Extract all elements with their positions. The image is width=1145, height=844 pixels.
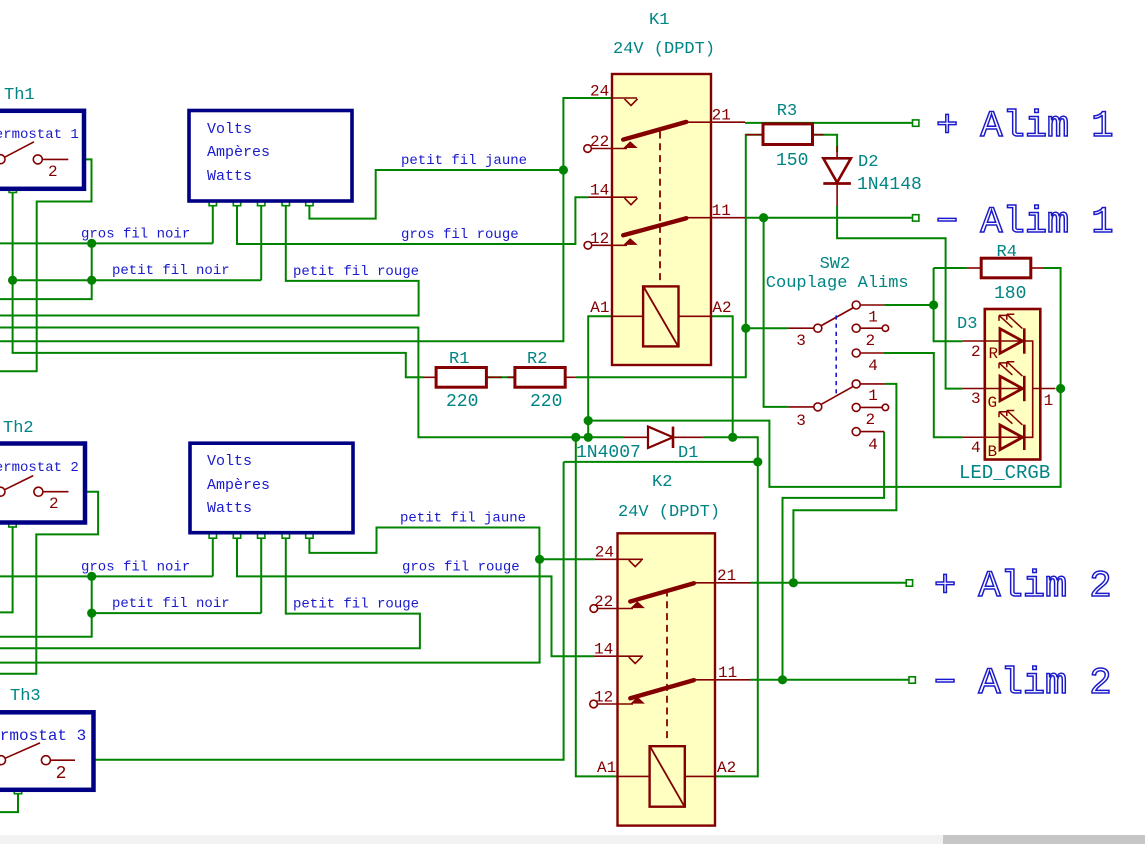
pin square VM1-1 [209, 198, 216, 205]
wire R1 left feed segment [486, 376, 515, 378]
SW2-A lever [822, 308, 853, 326]
coupling dash K2 [666, 590, 668, 743]
wire SW2-B pin4 down to -Alim2 [783, 432, 885, 680]
wire R4 left and D3 pin2 vertical [934, 268, 963, 341]
svg-text:Ampères: Ampères [207, 144, 270, 161]
svg-text:1N4007: 1N4007 [576, 443, 641, 463]
wire D1 out across and down [703, 437, 758, 776]
svg-text:1: 1 [868, 387, 878, 405]
svg-text:petit fil rouge: petit fil rouge [293, 597, 419, 613]
svg-text:petit fil jaune: petit fil jaune [400, 511, 526, 527]
svg-text:22: 22 [590, 133, 609, 151]
junction petit-noir2 x91.7 [87, 609, 96, 618]
svg-text:2: 2 [48, 163, 58, 181]
coil K2 [650, 746, 685, 807]
svg-text:− Alim 2: − Alim 2 [934, 663, 1112, 705]
wire R2 right to R3-left vertical [576, 135, 763, 378]
junction petit-noir1 x91.7 [87, 276, 96, 285]
svg-text:12: 12 [594, 689, 613, 707]
SW2-B pin1 [852, 380, 860, 388]
contact bar pole1 K2 [630, 583, 694, 601]
pin 11 K1 [687, 217, 745, 219]
svg-text:Th2: Th2 [3, 419, 34, 438]
wire petit fil noir 2 (VM2 pin3) [92, 612, 262, 614]
pin 22 K1 [584, 145, 592, 153]
wire VM2 pin3 stub [260, 538, 262, 613]
wire D2 bottom to D3 pin3 [837, 206, 962, 389]
junction petit-noir1 left [8, 276, 17, 285]
LED R triangle D3 [1000, 329, 1023, 354]
wire K1 A1 vertical to D1 anode and K2 pin24 area [588, 316, 612, 437]
pin square VM2-5 [306, 531, 313, 538]
endpoint square -Alim2 [909, 677, 915, 683]
wire D1-out branch left to Th3 switch net [564, 461, 758, 463]
wire K1 pin21 to +Alim1 [745, 122, 912, 124]
diode D2 1N4148 [823, 146, 922, 206]
D3 internal cathode bus [1024, 341, 1032, 437]
pin A1 K1 [612, 315, 643, 317]
wire petit fil rouge 2 (VM2 pin4 wrap to left) [0, 538, 420, 648]
svg-text:R: R [989, 345, 999, 363]
endpoint square +Alim1 [913, 120, 919, 126]
pin 14 K1 [589, 196, 638, 198]
relay K2 [590, 473, 751, 826]
pin square VM2-3 [258, 531, 265, 538]
junction D3 pin1 / R4 right [1056, 384, 1065, 393]
pin 21 K1 [687, 121, 745, 123]
pin 24 K2 [595, 558, 643, 560]
wire VM1 pin3 stub [260, 206, 262, 281]
pin square VM1-4 [282, 198, 289, 205]
SW2-B pin2 [852, 403, 860, 411]
pin square VM1-2 [233, 198, 240, 205]
svg-text:24: 24 [595, 544, 614, 562]
relay K1 [584, 11, 745, 365]
wire K1 pin24 net vertical with left branch [0, 98, 612, 341]
LED R emission arrows [999, 315, 1012, 327]
wire K2 pin24 branch down to left band [0, 559, 540, 662]
wire left band to D1 anode [0, 328, 623, 438]
svg-text:220: 220 [530, 392, 562, 412]
svg-text:2: 2 [49, 495, 59, 513]
svg-text:− Alim 1: − Alim 1 [936, 202, 1114, 244]
voltmeter VM2 [190, 443, 353, 533]
svg-text:Th1: Th1 [4, 86, 35, 105]
pin square Th1 [9, 185, 16, 192]
svg-text:Thermostat 3: Thermostat 3 [0, 727, 86, 745]
wire K2 pin11 to -Alim2 [751, 679, 909, 681]
wire SW2-A pin4 to D3 pin4 [883, 353, 962, 437]
svg-text:24: 24 [590, 83, 609, 101]
wire x91.7 vertical noir2 to left exit [0, 576, 92, 636]
junction gros-noir1 x91.7 [87, 239, 96, 248]
wire K2 pin21 to +Alim2 [751, 582, 906, 584]
svg-text:3: 3 [796, 412, 806, 430]
wire gros fil rouge (VM1 pin2 to K1 pin14) [237, 197, 589, 244]
svg-text:12: 12 [590, 230, 609, 248]
svg-text:G: G [988, 394, 998, 412]
svg-text:gros fil noir: gros fil noir [81, 227, 190, 243]
svg-text:Volts: Volts [207, 453, 252, 470]
LED R lead [962, 340, 1024, 342]
svg-text:4: 4 [971, 439, 981, 457]
junction gros-noir2 x91.7 [87, 572, 96, 581]
svg-text:gros fil rouge: gros fil rouge [401, 227, 519, 243]
wire Th2 switch path [0, 492, 98, 674]
resistor R4 [967, 243, 1043, 304]
thermostat Th3 [0, 687, 94, 790]
svg-text:D3: D3 [957, 315, 977, 334]
svg-text:150: 150 [776, 151, 808, 171]
svg-text:petit fil rouge: petit fil rouge [293, 264, 419, 280]
wire K1 A2 down to D1 out [711, 316, 733, 437]
pin square Th3 [14, 786, 21, 793]
LED B lead [962, 436, 1024, 438]
svg-text:1: 1 [1044, 392, 1054, 410]
pin 12 K2 [590, 700, 598, 708]
svg-text:11: 11 [718, 664, 737, 682]
svg-text:24V (DPDT): 24V (DPDT) [618, 503, 720, 522]
voltmeter VM1 [189, 111, 352, 202]
junction D1 anode dot1 [571, 433, 580, 442]
wire SW2-A pin3 to R3 net junction [747, 327, 789, 329]
junction -Alim2 [778, 675, 787, 684]
svg-text:1N4148: 1N4148 [857, 175, 922, 195]
switch SW2 couplage alims [766, 255, 909, 454]
wire SW2-A pin1 to R4 junction [884, 304, 933, 306]
svg-text:22: 22 [594, 593, 613, 611]
pin square VM1-5 [306, 198, 313, 205]
junction R3-left / SW2-A3 [741, 324, 750, 333]
pin square VM1-3 [258, 198, 265, 205]
svg-text:+ Alim 2: + Alim 2 [934, 566, 1112, 608]
svg-text:B: B [988, 443, 998, 461]
svg-text:2: 2 [56, 764, 67, 784]
svg-text:3: 3 [796, 332, 806, 350]
svg-text:petit fil noir: petit fil noir [112, 596, 230, 612]
svg-text:petit fil jaune: petit fil jaune [401, 153, 527, 169]
pin 14 K2 [594, 655, 643, 657]
wire petit fil noir (Th1 pin to VM1 pin3) [13, 279, 262, 281]
wire x91.7 vertical gros-noir to left exit [0, 243, 92, 299]
wire gros fil noir 2 (to VM2 pin1) [0, 575, 213, 577]
junction D1 out lower [753, 457, 762, 466]
svg-text:220: 220 [446, 392, 478, 412]
svg-text:1: 1 [868, 309, 878, 327]
pin square Th2 [9, 520, 16, 527]
svg-text:Th3: Th3 [10, 687, 41, 706]
resistor R3 [746, 102, 824, 171]
svg-text:4: 4 [868, 436, 878, 454]
svg-text:A1: A1 [590, 299, 609, 317]
junction D1 out / K1-A2 [728, 433, 737, 442]
contact bar pole2 K2 [630, 680, 694, 698]
wire petit fil jaune 2 (VM2 pin5 to K2 pin24 net) [309, 528, 594, 560]
svg-text:D1: D1 [678, 444, 698, 463]
D3 pin1 lead [1033, 388, 1056, 390]
wire VM2 pin1 stub [212, 538, 214, 576]
svg-text:21: 21 [717, 567, 736, 585]
wire gros fil rouge 2 (VM2 pin2 to K2 pin14) [237, 538, 594, 656]
svg-text:gros fil rouge: gros fil rouge [402, 560, 520, 576]
pin A2 K2 [685, 775, 715, 777]
wire petit fil rouge (VM1 pin4 wrap to left edge) [0, 206, 419, 316]
wire petit fil jaune (VM1 pin5 to K1 pin24 net) [309, 170, 563, 219]
svg-text:K2: K2 [652, 473, 672, 492]
svg-text:+ Alim 1: + Alim 1 [936, 106, 1114, 148]
SW2-A pin4 [852, 349, 860, 357]
coupling dash K1 [659, 132, 661, 282]
SW2 gang dashed link [835, 315, 837, 393]
svg-text:gros fil noir: gros fil noir [81, 560, 190, 576]
SW2-B pin3 [788, 406, 813, 408]
wire Th3 pin stub to left exit [0, 794, 18, 812]
svg-text:4: 4 [868, 357, 878, 375]
svg-text:Watts: Watts [207, 500, 252, 517]
svg-text:D2: D2 [858, 153, 878, 172]
pin 24 K1 [612, 97, 637, 99]
scrollbar track [0, 835, 1145, 844]
wire SW2-B pin1 down to +Alim2 [793, 384, 896, 583]
wire gros fil noir (net Th1/VM1 pin1) [0, 242, 213, 244]
svg-text:K1: K1 [649, 11, 669, 30]
svg-text:Ampères: Ampères [207, 477, 270, 494]
svg-text:2: 2 [971, 343, 981, 361]
svg-text:2: 2 [866, 411, 876, 429]
svg-text:LED_CRGB: LED_CRGB [959, 462, 1050, 484]
pin 12 K1 [584, 242, 592, 250]
wire Th2 pin stub down to left exit [0, 527, 13, 612]
LED B emission arrows [999, 412, 1012, 424]
junction -Alim1 / SW2-B3 [759, 213, 768, 222]
SW2-B lever [822, 387, 853, 405]
LED B triangle D3 [1000, 425, 1023, 450]
thermostat Th1 [0, 86, 84, 189]
LED G lead [962, 388, 1024, 390]
svg-text:Thermostat 2: Thermostat 2 [0, 460, 79, 476]
junction SW2-A1 / R4 [929, 300, 938, 309]
endpoint square +Alim2 [906, 580, 912, 586]
wire Th3 switch long run [75, 462, 564, 760]
wire Th1 switch to left exit [0, 159, 92, 371]
svg-text:2: 2 [866, 332, 876, 350]
svg-text:Thermostat 1: Thermostat 1 [0, 127, 79, 143]
contact bar pole2 K1 [623, 218, 686, 235]
SW2-A pin1 [852, 301, 860, 309]
resistor R2 [508, 350, 576, 412]
pin square VM2-4 [282, 531, 289, 538]
junction +Alim2 [789, 578, 798, 587]
LED D3 LED_CRGB [957, 309, 1056, 484]
svg-text:Watts: Watts [207, 168, 252, 185]
svg-text:R4: R4 [997, 243, 1017, 262]
scrollbar thumb [943, 835, 1145, 844]
contact bar pole1 K1 [623, 122, 686, 140]
diode D1 1N4007 [576, 427, 703, 463]
coil K1 [643, 286, 678, 346]
svg-text:R2: R2 [527, 350, 547, 369]
svg-text:petit fil noir: petit fil noir [112, 263, 230, 279]
svg-text:R1: R1 [449, 350, 469, 369]
pin square VM2-2 [233, 531, 240, 538]
svg-text:Volts: Volts [207, 121, 252, 138]
pin 22 K2 [590, 605, 598, 613]
svg-text:14: 14 [590, 182, 609, 200]
resistor R1 [424, 350, 502, 412]
wire -Alim1 to SW2-B pin3 [764, 218, 789, 407]
svg-text:A1: A1 [597, 759, 616, 777]
SW2-A pin2 [852, 324, 860, 332]
pin 11 K2 [692, 679, 751, 681]
LED G emission arrows [999, 363, 1012, 375]
SW2-B pin4 [852, 428, 860, 436]
wire D1 anode dot1 down to K2 A1 [576, 437, 618, 776]
wire VM1 pin1 stub [212, 206, 214, 244]
junction D1 anode dot2 [584, 433, 593, 442]
wire R4 right to D3 pin1 and down to K-coil net [588, 268, 1060, 487]
junction K2 pin24 net [535, 555, 544, 564]
wire R3 right to D2 top [813, 135, 838, 152]
svg-text:SW2: SW2 [820, 255, 851, 274]
pin A1 K2 [618, 775, 650, 777]
svg-text:Couplage Alims: Couplage Alims [766, 274, 909, 293]
svg-text:A2: A2 [717, 759, 736, 777]
wire K1 pin11 to -Alim1 [745, 217, 912, 219]
wire R4 left stub [934, 267, 967, 269]
svg-text:21: 21 [712, 107, 731, 125]
pin A2 K1 [679, 315, 711, 317]
SW2-A pin3 [788, 327, 813, 329]
wire Th1 pin stub down to petit-noir and R1 feed [13, 193, 424, 378]
LED G triangle D3 [1000, 376, 1023, 401]
svg-text:14: 14 [594, 641, 613, 659]
svg-text:3: 3 [971, 390, 981, 408]
svg-text:11: 11 [712, 202, 731, 220]
thermostat Th2 [0, 419, 85, 523]
svg-text:A2: A2 [712, 299, 731, 317]
endpoint square -Alim1 [913, 215, 919, 221]
svg-text:180: 180 [994, 284, 1026, 304]
pin square VM2-1 [209, 531, 216, 538]
junction K1-A1 net at y420.6 [584, 416, 593, 425]
svg-text:R3: R3 [777, 102, 797, 121]
junction jaune1 [559, 165, 568, 174]
svg-text:24V (DPDT): 24V (DPDT) [613, 40, 715, 59]
pin 21 K2 [692, 582, 751, 584]
